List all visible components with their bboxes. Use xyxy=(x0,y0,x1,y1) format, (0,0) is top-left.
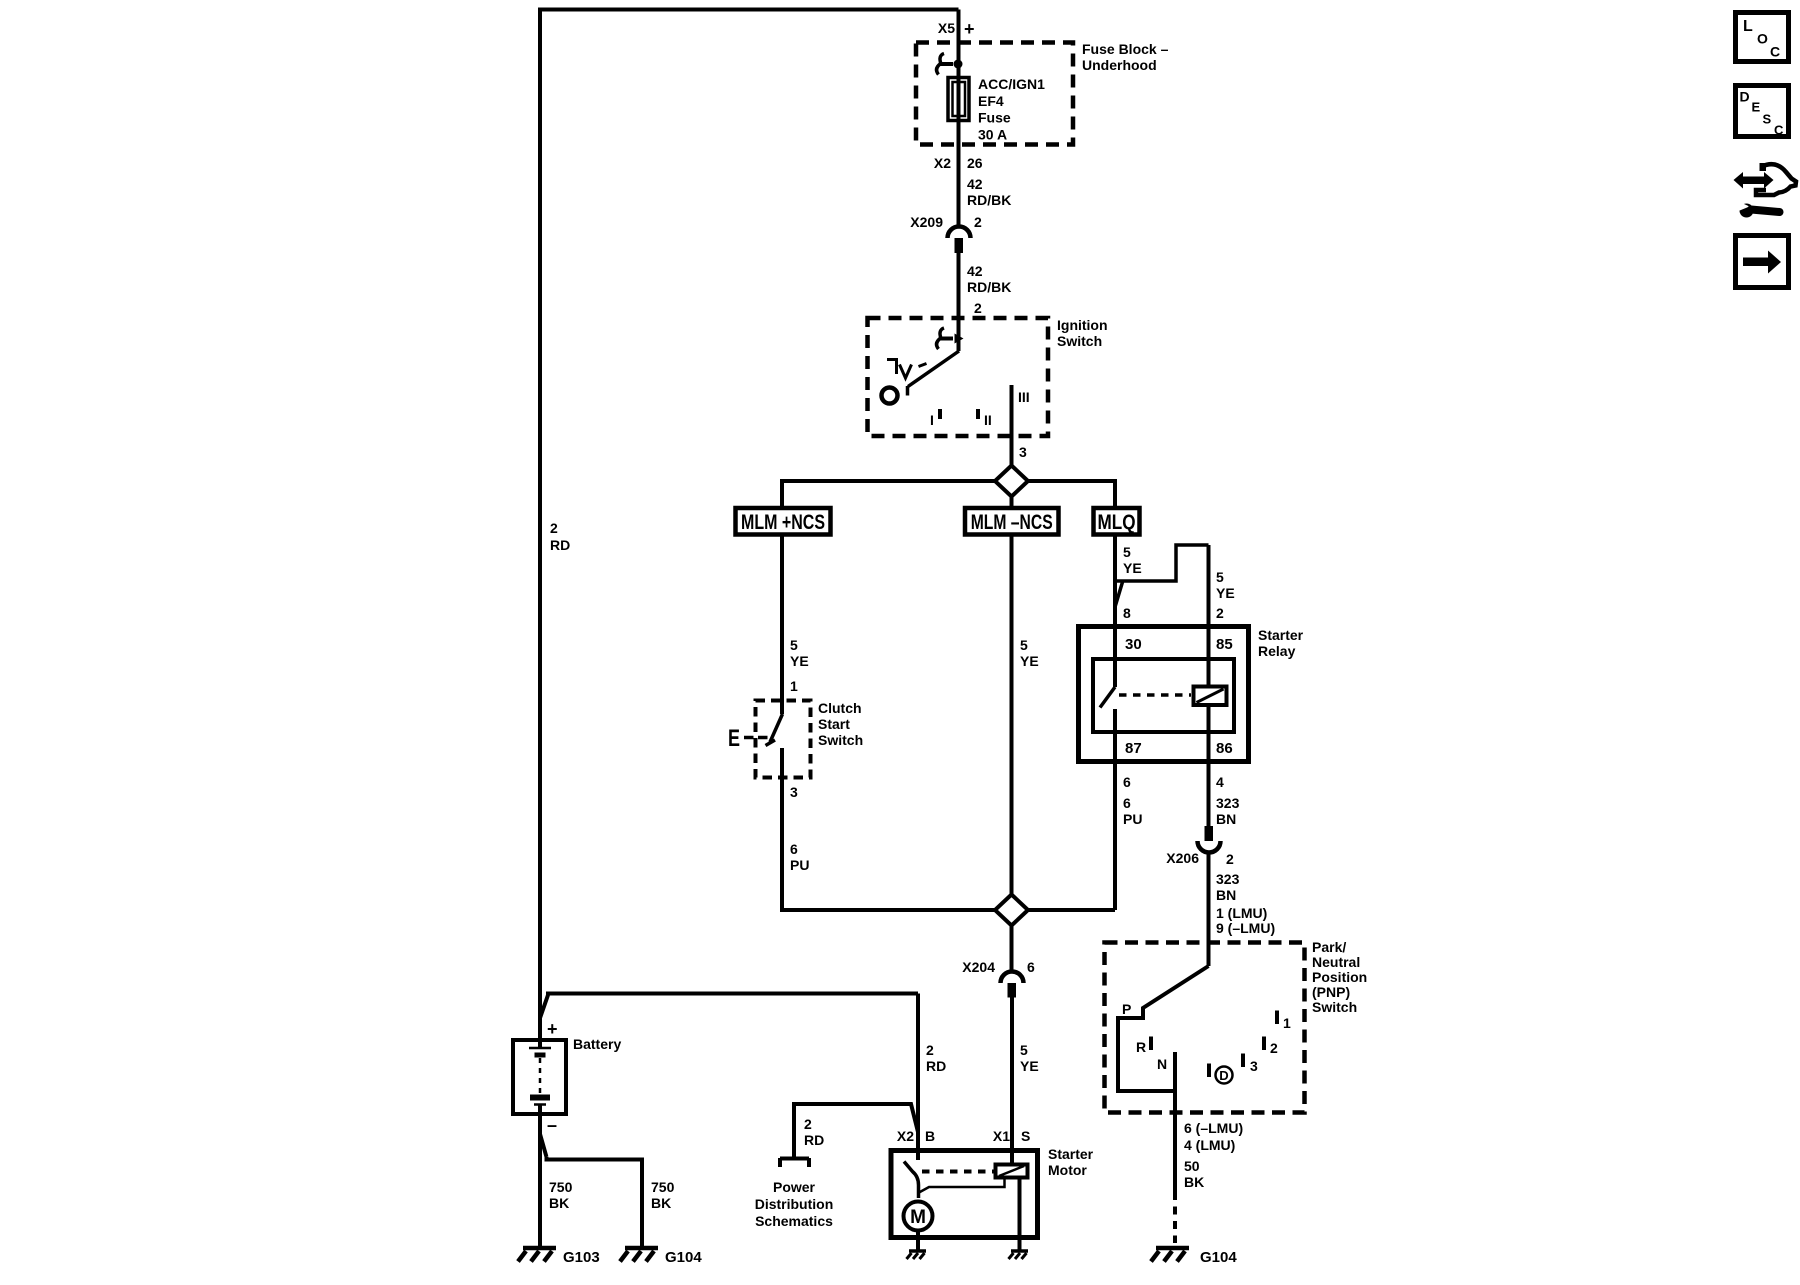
position I tick+label xyxy=(938,409,942,419)
ignition switch arm xyxy=(908,351,960,396)
svg-text:2: 2 xyxy=(804,1116,812,1132)
ignition switch rotor circle xyxy=(882,388,898,404)
svg-text:6 (–LMU): 6 (–LMU) xyxy=(1184,1120,1243,1136)
svg-text:9 (–LMU): 9 (–LMU) xyxy=(1216,920,1275,936)
ground G103 xyxy=(523,1246,556,1251)
svg-text:Starter: Starter xyxy=(1048,1146,1094,1162)
svg-text:Motor: Motor xyxy=(1048,1162,1087,1178)
svg-text:RD: RD xyxy=(804,1132,824,1148)
svg-text:Start: Start xyxy=(818,716,850,732)
icon DESC box xyxy=(1736,86,1789,137)
svg-text:1: 1 xyxy=(1283,1015,1291,1031)
svg-text:L: L xyxy=(1743,18,1753,35)
relay switch arm xyxy=(1100,687,1115,708)
svg-text:P: P xyxy=(1122,1001,1131,1017)
ground under solenoid xyxy=(1011,1249,1028,1253)
starter solenoid switch xyxy=(916,1148,920,1160)
clutch start switch dashed box xyxy=(756,701,811,778)
fuse ACC/IGN1 EF4 30A xyxy=(948,78,969,121)
svg-text:8: 8 xyxy=(1123,605,1131,621)
svg-text:ACC/IGN1: ACC/IGN1 xyxy=(978,76,1045,92)
svg-text:Schematics: Schematics xyxy=(755,1213,833,1229)
svg-text:86: 86 xyxy=(1216,740,1233,757)
svg-text:MLQ: MLQ xyxy=(1098,511,1136,534)
PNP switch contact path P to N xyxy=(1118,966,1209,1091)
contact D tick + circled D xyxy=(1207,1064,1211,1078)
wire 323 BN to PNP switch xyxy=(1207,852,1211,967)
svg-text:+: + xyxy=(964,19,975,39)
svg-text:Position: Position xyxy=(1312,969,1367,985)
starter contact linkage thin wire xyxy=(919,1179,1005,1193)
svg-text:30 A: 30 A xyxy=(978,127,1007,143)
starter solenoid coil xyxy=(996,1165,1028,1178)
svg-text:Power: Power xyxy=(773,1179,816,1195)
svg-text:750: 750 xyxy=(651,1179,675,1195)
svg-text:4: 4 xyxy=(1216,774,1224,790)
ignition switch dashed box xyxy=(868,318,1049,436)
wire ignition output pin 3 xyxy=(1010,385,1014,506)
icon wrench xyxy=(1740,204,1754,218)
ground G104 under PNP xyxy=(1156,1246,1189,1251)
svg-text:5: 5 xyxy=(1020,1042,1028,1058)
svg-text:Switch: Switch xyxy=(1057,333,1102,349)
icon check transmission xyxy=(1734,172,1744,189)
wire MLM -NCS down 5 YE xyxy=(1010,535,1014,897)
svg-text:2: 2 xyxy=(1216,605,1224,621)
position IV mark xyxy=(887,360,927,379)
wire MLQ down to relay pin 30 xyxy=(1113,535,1117,688)
svg-text:6: 6 xyxy=(1027,959,1035,975)
svg-text:2: 2 xyxy=(550,520,558,536)
clutch switch arm xyxy=(766,714,783,746)
svg-text:BK: BK xyxy=(651,1195,671,1211)
svg-text:X1: X1 xyxy=(993,1128,1010,1144)
svg-text:YE: YE xyxy=(1216,585,1235,601)
svg-text:PU: PU xyxy=(1123,811,1142,827)
wire solenoid to ground xyxy=(1018,1178,1022,1251)
svg-text:II: II xyxy=(984,412,992,428)
svg-text:2: 2 xyxy=(926,1042,934,1058)
connector box MLM +NCS xyxy=(736,508,831,535)
relay coil xyxy=(1194,687,1227,706)
svg-text:B: B xyxy=(925,1128,935,1144)
svg-text:42: 42 xyxy=(967,263,983,279)
svg-text:S: S xyxy=(1021,1128,1030,1144)
wire dashed to ground xyxy=(1173,1192,1177,1243)
svg-text:–: – xyxy=(547,1115,557,1135)
starter link dashed xyxy=(922,1170,995,1174)
svg-text:2: 2 xyxy=(1226,851,1234,867)
svg-text:5: 5 xyxy=(1216,569,1224,585)
wire relay pin 86 down 323 BN xyxy=(1207,705,1211,826)
svg-text:O: O xyxy=(1757,31,1768,47)
svg-text:III: III xyxy=(1018,389,1030,405)
splice diamond S1 xyxy=(995,466,1028,497)
wire fuse feed vertical xyxy=(957,10,961,227)
svg-text:YE: YE xyxy=(1123,560,1142,576)
svg-text:Starter: Starter xyxy=(1258,627,1304,643)
svg-text:3: 3 xyxy=(790,784,798,800)
svg-text:5: 5 xyxy=(1123,544,1131,560)
svg-text:E: E xyxy=(728,725,740,752)
svg-text:42: 42 xyxy=(967,176,983,192)
starter relay outer box xyxy=(1079,627,1249,762)
wire PNP output 6/4/50 BK xyxy=(1173,1091,1177,1192)
svg-text:C: C xyxy=(1774,123,1784,138)
svg-text:2: 2 xyxy=(974,300,982,316)
svg-text:3: 3 xyxy=(1250,1058,1258,1074)
svg-text:BN: BN xyxy=(1216,811,1236,827)
svg-text:5: 5 xyxy=(1020,637,1028,653)
wire branch battery+ to starter B xyxy=(540,994,918,1149)
connector box MLQ xyxy=(1094,508,1140,535)
splice diamond S2 xyxy=(995,895,1028,926)
contact 3 tick+label xyxy=(1241,1054,1245,1068)
svg-text:6: 6 xyxy=(790,841,798,857)
svg-text:MLM +NCS: MLM +NCS xyxy=(741,511,825,534)
ground under motor xyxy=(909,1249,926,1253)
svg-text:2: 2 xyxy=(1270,1040,1278,1056)
svg-text:(PNP): (PNP) xyxy=(1312,984,1350,1000)
wire splice bus horizontal xyxy=(782,481,1115,506)
svg-text:30: 30 xyxy=(1125,636,1142,653)
svg-text:X2: X2 xyxy=(934,155,951,171)
svg-text:Clutch: Clutch xyxy=(818,700,862,716)
wire relay pin 87 down to bus xyxy=(1113,709,1117,910)
svg-text:87: 87 xyxy=(1125,740,1142,757)
wire battery- down to G103 xyxy=(538,1114,542,1246)
svg-text:D: D xyxy=(1219,1068,1228,1083)
svg-text:C: C xyxy=(1770,44,1780,60)
svg-text:RD: RD xyxy=(926,1058,946,1074)
svg-text:6: 6 xyxy=(1123,774,1131,790)
svg-text:X5: X5 xyxy=(938,20,955,36)
wire clutch lower contact 3 / 6 PU down to bottom bus xyxy=(782,748,1115,910)
svg-text:Switch: Switch xyxy=(1312,999,1357,1015)
svg-text:BK: BK xyxy=(549,1195,569,1211)
connector hook in ignition switch xyxy=(940,337,953,341)
connector X206 xyxy=(1205,826,1214,841)
svg-text:X204: X204 xyxy=(962,959,995,975)
starter motor M circle xyxy=(904,1202,933,1231)
svg-text:RD/BK: RD/BK xyxy=(967,279,1011,295)
svg-text:Underhood: Underhood xyxy=(1082,57,1157,73)
svg-text:X209: X209 xyxy=(910,214,943,230)
svg-text:EF4: EF4 xyxy=(978,93,1004,109)
svg-text:26: 26 xyxy=(967,155,983,171)
svg-text:323: 323 xyxy=(1216,795,1240,811)
svg-text:Ignition: Ignition xyxy=(1057,317,1108,333)
svg-text:Relay: Relay xyxy=(1258,643,1296,659)
contact 1 tick+label xyxy=(1275,1011,1279,1025)
icon arrow box xyxy=(1736,236,1789,288)
svg-text:YE: YE xyxy=(1020,653,1039,669)
starter relay inner box xyxy=(1093,659,1234,732)
svg-text:PU: PU xyxy=(790,857,809,873)
wire 5 YE clutch branch xyxy=(780,535,784,715)
fuse block underhood dashed box xyxy=(916,43,1073,145)
svg-text:BN: BN xyxy=(1216,887,1236,903)
wire 42 RD/BK 2 to ignition switch xyxy=(957,253,961,351)
connector box MLM -NCS xyxy=(965,508,1059,535)
wire motor to ground xyxy=(916,1231,920,1251)
svg-text:YE: YE xyxy=(1020,1058,1039,1074)
svg-text:G103: G103 xyxy=(563,1249,600,1266)
svg-text:Neutral: Neutral xyxy=(1312,954,1360,970)
svg-text:Distribution: Distribution xyxy=(755,1196,834,1212)
svg-text:MLM –NCS: MLM –NCS xyxy=(971,511,1053,534)
svg-text:D: D xyxy=(1740,89,1750,105)
svg-text:X206: X206 xyxy=(1166,850,1199,866)
svg-text:Fuse: Fuse xyxy=(978,110,1011,126)
svg-text:R: R xyxy=(1136,1039,1146,1055)
starter motor box xyxy=(891,1151,1038,1238)
relay link dashed xyxy=(1119,693,1191,697)
svg-text:Park/: Park/ xyxy=(1312,939,1346,955)
icon LOC box xyxy=(1736,13,1789,62)
svg-text:4 (LMU): 4 (LMU) xyxy=(1184,1137,1235,1153)
svg-text:G104: G104 xyxy=(665,1249,702,1266)
svg-text:YE: YE xyxy=(790,653,809,669)
wire branch to G104 xyxy=(540,1134,642,1246)
svg-text:BK: BK xyxy=(1184,1174,1204,1190)
svg-text:3: 3 xyxy=(1019,444,1027,460)
connector hook in fuse block xyxy=(940,62,953,66)
wire 5 YE to starter S xyxy=(1010,997,1014,1148)
svg-text:RD/BK: RD/BK xyxy=(967,192,1011,208)
svg-text:RD: RD xyxy=(550,537,570,553)
svg-text:G104: G104 xyxy=(1200,1249,1237,1266)
contact 2 tick+label xyxy=(1262,1037,1266,1051)
svg-text:2: 2 xyxy=(974,214,982,230)
PNP switch dashed box xyxy=(1105,943,1305,1113)
battery xyxy=(513,1040,566,1114)
svg-text:N: N xyxy=(1157,1056,1167,1072)
ground G104 xyxy=(625,1246,658,1251)
svg-text:50: 50 xyxy=(1184,1158,1200,1174)
svg-text:750: 750 xyxy=(549,1179,573,1195)
position II tick+label xyxy=(976,409,980,419)
svg-text:M: M xyxy=(910,1207,926,1228)
wire battery feed (2 RD) left vertical + top horizontal xyxy=(540,10,959,1041)
svg-text:Switch: Switch xyxy=(818,732,863,748)
svg-text:E: E xyxy=(1752,100,1761,115)
wire branch to relay pin 85 xyxy=(1115,545,1209,607)
svg-text:Battery: Battery xyxy=(573,1036,621,1052)
svg-text:323: 323 xyxy=(1216,871,1240,887)
svg-text:Fuse Block –: Fuse Block – xyxy=(1082,41,1169,57)
svg-text:I: I xyxy=(930,412,934,428)
svg-text:S: S xyxy=(1763,112,1772,127)
wire bottom diamond to X204 xyxy=(1010,925,1014,971)
power distribution off-page stub xyxy=(792,1104,918,1158)
svg-text:X2: X2 xyxy=(897,1128,914,1144)
svg-text:85: 85 xyxy=(1216,636,1233,653)
svg-text:1: 1 xyxy=(790,678,798,694)
svg-text:+: + xyxy=(547,1019,558,1039)
svg-text:6: 6 xyxy=(1123,795,1131,811)
svg-text:1 (LMU): 1 (LMU) xyxy=(1216,905,1267,921)
svg-text:5: 5 xyxy=(790,637,798,653)
